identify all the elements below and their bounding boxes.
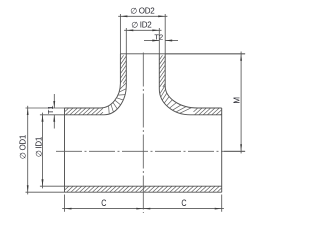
dimension ID2 line	[124, 29, 161, 31]
dimension OD2 extension lines	[120, 14, 165, 54]
branch outer right wall + right outer fillet + run outer top wall right	[165, 54, 222, 108]
run pipe outer top wall + left outer fillet + branch outer left wall	[65, 54, 121, 108]
svg-text:∅ ID2: ∅ ID2	[131, 20, 152, 29]
T2 wall thickness arrows	[144, 40, 159, 42]
section hatching	[65, 55, 222, 192]
run centerline	[56, 150, 245, 152]
branch centerline	[142, 53, 144, 214]
svg-text:∅ OD1: ∅ OD1	[19, 134, 28, 159]
run pipe inner top wall + left inner fillet + branch inner left wall	[65, 54, 127, 115]
svg-text:∅ ID1: ∅ ID1	[34, 136, 43, 157]
dimension C right line	[141, 208, 224, 210]
run pipe inner bottom wall line	[65, 185, 222, 187]
svg-text:M: M	[233, 97, 242, 104]
dimension ID1 line	[42, 113, 44, 189]
dimension M extension lines	[165, 54, 245, 152]
svg-text:∅ OD2: ∅ OD2	[130, 7, 155, 16]
run pipe right end face	[221, 108, 223, 192]
svg-text:C: C	[101, 198, 107, 208]
dimension OD2 line	[118, 15, 167, 17]
dimension C extension lines	[65, 195, 222, 212]
dimension OD1 line	[27, 106, 29, 195]
branch inner right wall + right inner fillet + run inner top wall right	[159, 54, 221, 115]
dimension ID1 extension lines	[40, 115, 65, 186]
svg-text:T2: T2	[154, 33, 163, 42]
run pipe left end face	[64, 108, 66, 192]
branch top end face	[120, 53, 245, 55]
T1 wall thickness arrows	[53, 94, 55, 108]
svg-text:C: C	[181, 198, 187, 208]
dimension OD1 extension lines	[26, 108, 65, 192]
dimension C left line	[62, 208, 145, 210]
run pipe outer bottom wall line	[65, 191, 222, 193]
svg-text:T1: T1	[46, 105, 55, 114]
dimension M line	[240, 52, 242, 154]
dimension ID2 extension lines	[126, 28, 159, 54]
